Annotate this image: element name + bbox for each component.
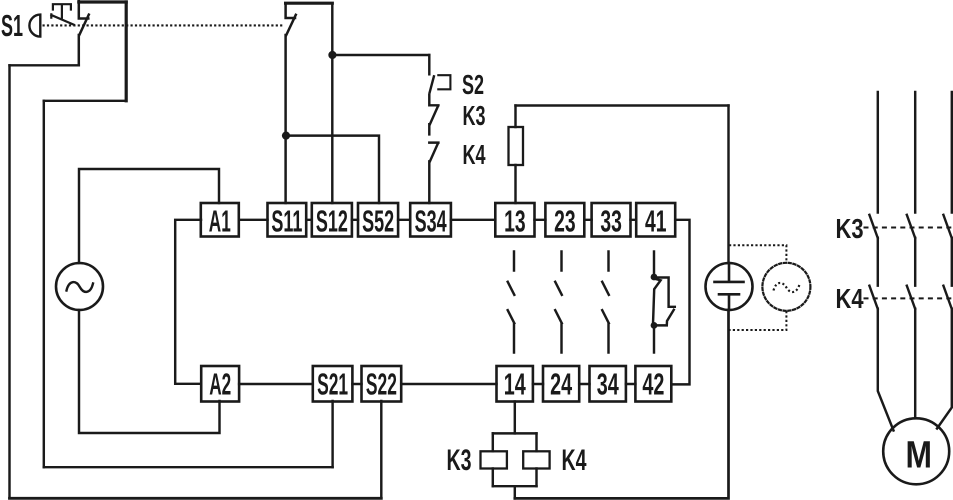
wire links row1 bbox=[239, 219, 636, 221]
wire ch1 bottom link bbox=[10, 64, 79, 66]
terminal box S11 bbox=[268, 203, 307, 239]
svg-text:13: 13 bbox=[504, 204, 526, 239]
supply source circle bbox=[706, 263, 753, 310]
svg-text:A1: A1 bbox=[209, 204, 231, 239]
wire S22 stub bbox=[380, 401, 382, 498]
wire A2 return bbox=[79, 310, 220, 433]
wire 14 to coils bbox=[514, 402, 516, 434]
contact K4 NC in chain bbox=[429, 143, 438, 203]
svg-text:K4: K4 bbox=[562, 444, 587, 477]
relay left bracket A1-A2 bbox=[175, 220, 201, 384]
terminal box 41 bbox=[636, 203, 675, 239]
wire supply top bbox=[516, 104, 729, 106]
S2 actuator bracket bbox=[438, 75, 450, 89]
coil K3 bbox=[481, 433, 507, 486]
S1 contact channel 2 bbox=[286, 3, 296, 203]
wire S21 return vertical bbox=[43, 101, 45, 467]
svg-text:S22: S22 bbox=[366, 367, 397, 402]
svg-text:S1: S1 bbox=[1, 8, 23, 43]
terminal box S34 bbox=[410, 203, 451, 239]
terminal box 34 bbox=[590, 366, 626, 402]
terminal box 33 bbox=[592, 203, 631, 239]
wire S12 drop bbox=[331, 3, 333, 203]
S1 contact channel 1 bbox=[79, 1, 89, 65]
svg-text:S52: S52 bbox=[362, 204, 394, 239]
fuse F1 bbox=[509, 127, 524, 165]
terminal box S21 bbox=[313, 366, 353, 402]
mechanical link dotted line bbox=[43, 24, 285, 26]
terminal box 24 bbox=[543, 366, 579, 402]
wire supply right drop bbox=[727, 106, 729, 264]
wire S21 stub bbox=[331, 401, 333, 467]
contact 41-42 NC bbox=[651, 252, 675, 353]
svg-text:33: 33 bbox=[600, 204, 622, 239]
contactor K3 contacts bbox=[869, 215, 951, 238]
svg-text:K4: K4 bbox=[463, 139, 486, 170]
wire coil bottom rail bbox=[493, 486, 537, 498]
wire left outer vertical bbox=[8, 65, 10, 498]
contactor K3 linkage dotted bbox=[864, 227, 953, 229]
wire A1 feed bbox=[79, 169, 219, 263]
svg-text:K3: K3 bbox=[836, 213, 864, 244]
svg-text:S2: S2 bbox=[462, 69, 484, 100]
pushbutton S2 contact bbox=[430, 76, 434, 92]
terminal box 14 bbox=[497, 366, 533, 402]
svg-text:K3: K3 bbox=[447, 444, 472, 477]
wire right drop bbox=[125, 2, 128, 101]
svg-text:S12: S12 bbox=[316, 204, 348, 239]
node junction ch1-S52 bbox=[282, 132, 290, 140]
wire top bar channel2 bbox=[286, 2, 333, 5]
svg-text:41: 41 bbox=[645, 204, 667, 239]
supply source bars bbox=[715, 263, 744, 310]
terminal box S22 bbox=[362, 366, 402, 402]
wire coil top rail bbox=[493, 432, 537, 434]
AC option sine bbox=[774, 283, 800, 292]
svg-text:S21: S21 bbox=[317, 367, 348, 402]
contact 33-34 NO bbox=[602, 252, 609, 353]
coil K4 bbox=[523, 433, 549, 486]
contact K3 NC in chain bbox=[429, 95, 438, 135]
wire to S52 bbox=[286, 136, 379, 203]
wire top bar channel1 bbox=[79, 0, 126, 3]
contactor K4 contacts bbox=[869, 286, 951, 309]
terminal box A2 bbox=[201, 366, 239, 402]
terminal box 13 bbox=[495, 203, 534, 239]
wire to S2 chain bbox=[332, 54, 429, 56]
svg-text:K4: K4 bbox=[836, 283, 864, 314]
AC source G1 circle bbox=[56, 263, 103, 310]
wire S21 return bottom bbox=[44, 466, 333, 468]
svg-text:34: 34 bbox=[597, 367, 619, 402]
wire fuse drop bbox=[514, 106, 516, 204]
e-stop mushroom actuator S1 bbox=[29, 15, 40, 37]
dotted link to AC option bbox=[729, 245, 786, 330]
terminal box 42 bbox=[635, 366, 671, 402]
wire S2 chain top stub bbox=[428, 55, 430, 74]
terminal box S52 bbox=[358, 203, 398, 239]
svg-text:K3: K3 bbox=[463, 100, 486, 131]
wire jog left bbox=[44, 100, 126, 102]
node junction S12-S2 bbox=[328, 51, 336, 59]
wire phase L1 bbox=[877, 92, 879, 213]
wire phase L3 bbox=[951, 92, 953, 213]
S1 actuator strut bbox=[51, 14, 74, 24]
wire links row2 bbox=[239, 383, 635, 385]
svg-text:S11: S11 bbox=[271, 204, 302, 239]
svg-text:42: 42 bbox=[642, 367, 664, 402]
wire bottom outer horizontal bbox=[10, 497, 382, 500]
svg-text:A2: A2 bbox=[209, 367, 231, 402]
wire motor leads bbox=[878, 309, 952, 431]
wire phase L2 bbox=[914, 92, 916, 213]
svg-text:S34: S34 bbox=[415, 204, 447, 239]
wire 41-42 outer loop bbox=[671, 220, 689, 385]
AC source sine bbox=[67, 282, 94, 292]
contact 23-24 NO bbox=[555, 252, 562, 353]
latch symbol T bbox=[53, 4, 71, 18]
wire phases mid bbox=[878, 238, 952, 286]
terminal box S12 bbox=[312, 203, 352, 239]
wire supply bottom bbox=[515, 310, 729, 498]
terminal box 23 bbox=[545, 203, 584, 239]
AC option dashed circle bbox=[762, 263, 810, 311]
svg-text:24: 24 bbox=[550, 367, 572, 402]
contactor K4 linkage dotted bbox=[864, 297, 953, 299]
terminal box A1 bbox=[201, 203, 239, 239]
motor M circle bbox=[883, 418, 949, 484]
contact 13-14 NO bbox=[508, 252, 515, 353]
svg-text:23: 23 bbox=[554, 204, 576, 239]
svg-text:M: M bbox=[906, 435, 933, 477]
svg-text:14: 14 bbox=[504, 367, 526, 402]
